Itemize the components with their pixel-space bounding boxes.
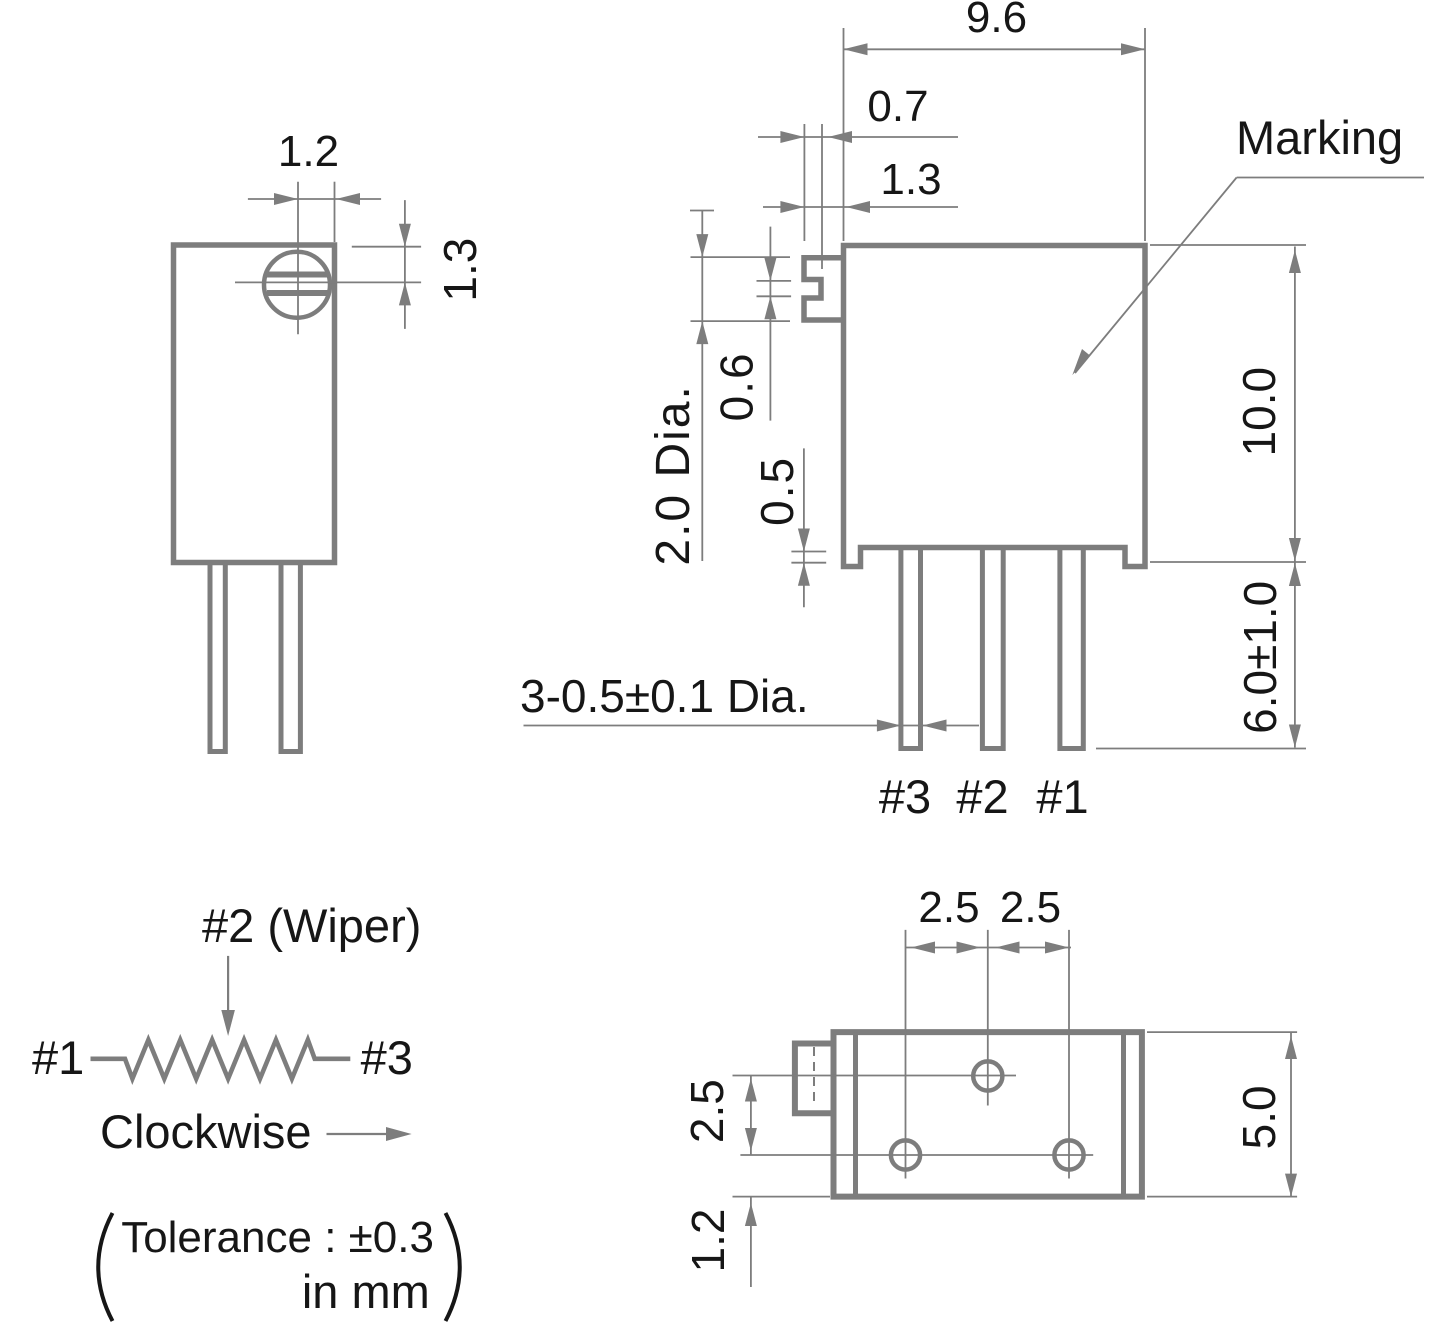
screw slot bar lower [267,290,328,296]
bottom view inner line right [1121,1032,1126,1197]
screw circle [264,252,330,318]
marking leader horizontal [1237,177,1424,179]
big left parenthesis [98,1213,112,1321]
svg-text:1.2: 1.2 [682,1209,734,1273]
front body outline with bottom corner feet [844,246,1146,567]
right extension top (body top) [1150,244,1306,246]
extension line A boss left face [803,124,805,241]
crosshair horizontal bottom holes [740,1154,1093,1156]
svg-text:Tolerance : ±0.3: Tolerance : ±0.3 [121,1213,434,1262]
dim 5.0 vertical line [1290,1032,1292,1197]
dim 10.0 arrow up [1289,250,1301,273]
dim 0.6 vertical line [769,227,771,421]
clockwise arrow line [327,1133,391,1135]
clockwise arrowhead [386,1127,412,1141]
front lead #1 [1060,549,1083,749]
dim 5.0 arrow up [1285,1036,1297,1059]
circle horizontal centerline [235,281,421,283]
svg-text:#3: #3 [361,1031,413,1084]
dim 0.5 arrow down [798,529,810,552]
marking leader arrowhead [1072,349,1090,375]
right extension middle (body bottom) [1150,561,1306,563]
dim 1.3 arrow right [846,201,870,213]
dim 5.0 extension bottom [1147,1196,1297,1198]
lead dia arrow left [877,720,901,732]
svg-text:3-0.5±0.1 Dia.: 3-0.5±0.1 Dia. [520,670,809,722]
svg-text:#1: #1 [1036,770,1088,823]
circle vertical centerline [297,182,299,335]
dim 2.5/2.5 top line [906,947,1071,949]
svg-text:0.7: 0.7 [867,82,928,131]
crosshair vertical hole bottom-left [905,930,907,1179]
wiper arrow line [227,956,229,1012]
svg-text:#2: #2 [956,770,1008,823]
svg-text:1.3: 1.3 [434,238,486,302]
hole top center [973,1061,1002,1090]
dim 0.5 tick upper [791,551,826,553]
bottom view inner line left [853,1032,858,1197]
svg-text:2.5: 2.5 [918,883,979,932]
dim 0.6 tick lower [757,295,792,297]
dim 5.0 extension top [1147,1031,1297,1033]
svg-text:5.0: 5.0 [1233,1085,1285,1149]
dim 9.6 right extension line [1144,28,1146,241]
dim 9.6 left extension line [843,28,845,241]
resistor element [91,1040,351,1079]
dim 0.5 arrow up [798,563,810,586]
dim 0.5 tick lower [791,562,826,564]
body right edge extension [334,182,336,242]
boss dashed centerline [813,1047,815,1104]
svg-text:1.2: 1.2 [278,127,339,176]
dim 2.0 tick upper [691,256,791,258]
lead diameter leader line [524,725,980,727]
dim 9.6 line [844,48,1146,50]
dim 6.0 arrow down [1289,725,1301,748]
dim 1.2 line [248,198,381,200]
dim 2.0 tick lower [691,320,791,322]
dim 1.2 left vertical line [750,1197,752,1287]
svg-text:2.5: 2.5 [1000,883,1061,932]
dim 1.3 line [763,206,958,208]
dim 1.2 arrow left [274,193,298,205]
dim 9.6 arrow right [1121,43,1145,55]
dim 5.0 arrow down [1285,1174,1297,1197]
lead dia arrow right [923,720,947,732]
dim 0.6 arrow down [764,258,776,281]
front lead #2 [982,549,1003,749]
svg-text:in mm: in mm [302,1265,430,1318]
dim 0.6 tick upper [757,280,792,282]
dim 2.0 arrow down [696,234,708,257]
extension line B slot depth [821,124,823,269]
crosshair vertical hole top [987,930,989,1106]
svg-text:0.5: 0.5 [751,456,803,526]
dim 2.0 top tick [690,210,714,212]
dim 0.7 line [758,136,958,138]
dim 9.6 arrow left [844,43,868,55]
bottom body extension left [733,1196,831,1198]
svg-text:2.5: 2.5 [681,1079,733,1143]
dim 10.0 and 6.0 vertical line [1294,247,1296,748]
svg-text:#1: #1 [32,1031,84,1084]
top dim arrow center-left-pointing [996,942,1020,954]
dim 1.3 side arrow up [399,282,411,305]
dim 1.2 left arrow up [745,1203,757,1226]
marking leader diagonal [1075,178,1237,374]
side view lead right [281,563,300,752]
hole bottom left [891,1140,920,1169]
side view body [174,245,335,563]
svg-text:#2 (Wiper): #2 (Wiper) [202,899,421,952]
svg-text:Marking: Marking [1236,111,1403,164]
screw slot bar upper [267,272,328,278]
hole bottom right [1054,1140,1083,1169]
svg-text:0.6: 0.6 [711,351,763,421]
svg-text:6.0±1.0: 6.0±1.0 [1234,581,1286,734]
dim 2.5 left vertical line [750,1076,752,1156]
svg-text:Clockwise: Clockwise [100,1105,312,1158]
big right parenthesis [446,1213,460,1321]
bottom view boss protrusion [795,1044,833,1114]
side view lead left [210,563,225,752]
dim 2.5 left arrow up [745,1079,757,1102]
dim 2.0 arrow up [696,321,708,344]
dim 0.7 arrow left [780,131,804,143]
svg-text:9.6: 9.6 [966,0,1027,42]
svg-text:#3: #3 [879,770,931,823]
bottom view body [834,1032,1142,1197]
svg-text:2.0 Dia.: 2.0 Dia. [647,384,700,565]
dim 1.3 arrow left [780,201,804,213]
dim 0.5 vertical line [803,448,805,607]
dim 1.3 side arrow down [399,224,411,247]
top dim arrow center-right-pointing [957,942,981,954]
dim 10.0 arrow down [1289,538,1301,561]
dim 0.7 arrow right [828,131,852,143]
wiper arrowhead [221,1010,235,1036]
dim 1.3 side tick top [352,246,421,248]
dim 2.0 vertical line [701,211,703,562]
dim 0.6 arrow up [764,296,776,319]
svg-text:10.0: 10.0 [1233,367,1285,457]
adjustment boss with slot (left protrusion) [804,258,844,320]
dim 2.5 left arrow down [745,1128,757,1151]
crosshair horizontal top hole [733,1075,1017,1077]
svg-text:1.3: 1.3 [880,155,941,204]
dim 6.0 arrow up [1289,563,1301,586]
top dim arrow far-left [911,942,935,954]
right extension bottom (lead end) [1096,748,1306,750]
dim 1.3 side vertical line [404,200,406,329]
top dim arrow far-right [1045,942,1069,954]
crosshair vertical hole bottom-right [1068,930,1070,1179]
dim 1.2 arrow right [336,193,360,205]
front lead #3 [901,549,921,749]
